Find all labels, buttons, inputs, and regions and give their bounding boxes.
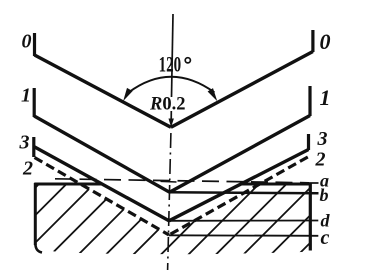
cone 2 (dashed) right side <box>169 157 308 235</box>
cone 3 right end tick <box>307 134 310 150</box>
svg-text:0: 0 <box>320 29 331 54</box>
cone 0 right side <box>171 52 313 128</box>
svg-text:1: 1 <box>320 85 331 110</box>
specimen left edge bottom curl <box>35 243 42 253</box>
svg-text:3: 3 <box>19 132 30 154</box>
cone position 1: left end tick <box>33 88 36 117</box>
svg-text:b: b <box>320 185 329 205</box>
hatching of specimen section <box>0 170 379 279</box>
svg-text:3: 3 <box>317 128 328 150</box>
arc arrowhead right <box>208 88 218 101</box>
svg-text:2: 2 <box>22 158 33 180</box>
arc arrowhead left <box>123 88 132 101</box>
svg-text:120: 120 <box>159 52 182 77</box>
center line, lower dash-dot segment <box>168 133 171 270</box>
level line b <box>170 192 319 193</box>
cone 3 left side <box>34 147 169 221</box>
cone 3 right side <box>169 150 309 221</box>
cone 0 right end tick <box>311 30 314 52</box>
svg-text:R0.2: R0.2 <box>149 95 185 115</box>
specimen top edge left segment <box>34 183 101 186</box>
R0.2 leader arrow shaft <box>170 111 172 121</box>
specimen top edge right segment <box>242 183 311 186</box>
cone 0 left side <box>35 55 171 127</box>
dimension arc for 120 degrees <box>129 77 215 93</box>
cone position 0: left end tick <box>33 33 36 56</box>
R0.2 leader arrowhead <box>169 119 174 128</box>
center line cross tick at surface level <box>161 180 177 183</box>
specimen right edge <box>309 183 312 251</box>
cone position 3: left end tick <box>32 137 35 157</box>
cone position 2 (dashed) left side <box>35 158 170 236</box>
level a tick at right edge <box>308 182 319 184</box>
degree symbol <box>185 58 190 63</box>
level line c <box>169 234 318 237</box>
svg-text:1: 1 <box>21 85 31 107</box>
svg-text:2: 2 <box>315 148 326 170</box>
svg-text:c: c <box>321 227 330 249</box>
center line (indenter axis), upper solid segments <box>172 14 174 97</box>
cone 1 right side <box>170 116 311 193</box>
specimen left edge <box>34 183 37 245</box>
level line d <box>169 220 318 222</box>
cone 1 left side <box>34 116 169 192</box>
surface level line a (dashed) <box>55 179 309 183</box>
svg-text:0: 0 <box>22 30 32 52</box>
cone 1 right end tick <box>308 86 311 116</box>
